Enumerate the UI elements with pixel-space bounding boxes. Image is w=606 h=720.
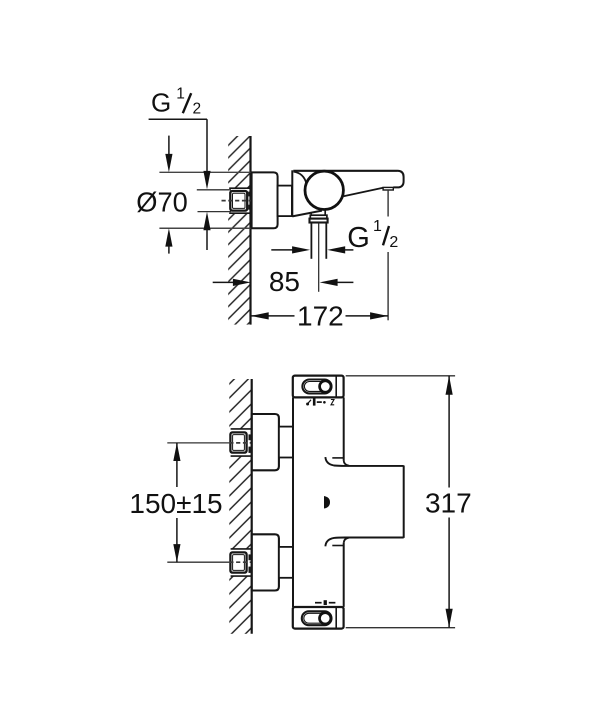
- svg-text:1: 1: [373, 218, 382, 235]
- svg-text:85: 85: [269, 266, 300, 297]
- svg-text:150±15: 150±15: [129, 488, 222, 519]
- svg-text:172: 172: [297, 301, 344, 332]
- svg-text:G: G: [151, 88, 171, 118]
- svg-text:Ø70: Ø70: [136, 187, 188, 218]
- svg-text:1: 1: [176, 85, 185, 102]
- svg-text:2: 2: [389, 234, 398, 251]
- svg-text:317: 317: [425, 488, 472, 519]
- svg-text:2: 2: [193, 100, 202, 117]
- svg-text:G: G: [347, 222, 370, 254]
